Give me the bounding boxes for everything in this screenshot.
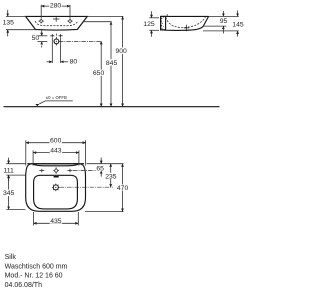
svg-text:845: 845 — [106, 60, 118, 67]
svg-text:435: 435 — [50, 218, 62, 225]
side view: top edge and extension — [161, 15, 209, 17]
plan view: left tap hole cross — [39, 169, 44, 173]
side view: plate speckles — [161, 17, 164, 29]
plan view: inner bowl outline — [34, 175, 78, 209]
dimension 145 — [232, 11, 244, 37]
svg-text:Waschtisch 600 mm: Waschtisch 600 mm — [5, 263, 68, 270]
dimension 135 — [2, 10, 37, 37]
svg-text:65: 65 — [96, 166, 104, 173]
reference line 650 (drain height) — [59, 40, 102, 42]
front view: left tap hole (drilled, diamond) — [39, 19, 44, 24]
dimension 900 — [115, 16, 127, 106]
plan view: right tap hole cross — [68, 169, 73, 173]
dimension 95 — [219, 11, 227, 34]
dimension 443 — [33, 147, 79, 166]
title text block — [5, 254, 68, 289]
plan view: drain reference line (dash-dot) — [60, 186, 113, 188]
floor level symbol — [35, 95, 72, 106]
svg-text:Mod.- Nr. 12 16 60: Mod.- Nr. 12 16 60 — [5, 273, 63, 280]
dimension 65 — [96, 158, 105, 177]
svg-text:125: 125 — [143, 21, 155, 28]
floor line — [4, 106, 220, 108]
svg-text:80: 80 — [70, 59, 78, 66]
svg-text:443: 443 — [50, 147, 62, 154]
reference line 900 (top edge extension) — [88, 15, 124, 17]
dimension 111 — [3, 158, 25, 182]
svg-text:04.06.08/Th: 04.06.08/Th — [5, 282, 42, 289]
plan view: outer outline — [26, 164, 86, 212]
front view: washbasin outline — [26, 16, 88, 30]
dimension 600 — [26, 137, 86, 166]
plan view: rear extension line — [87, 163, 124, 165]
drain circle — [54, 39, 59, 44]
front view: hidden bowl outline (dashed) — [35, 21, 78, 26]
dimension 435 — [34, 212, 79, 226]
dimension 235 — [105, 164, 117, 188]
side view: wall fixing plate — [161, 16, 166, 29]
dimension 80 — [47, 38, 78, 66]
svg-text:135: 135 — [3, 19, 15, 26]
plan view: rear ledge arc — [33, 164, 78, 166]
svg-text:±0 = OFFB: ±0 = OFFB — [46, 95, 67, 100]
plan view: front extension line — [85, 211, 124, 213]
fixing holes cross pair below basin — [50, 34, 63, 37]
dimension 50 — [32, 30, 48, 48]
dimension 845 — [106, 22, 118, 107]
svg-text:900: 900 — [116, 48, 128, 55]
reference line 845 — [83, 21, 112, 23]
dimension 125 — [143, 11, 159, 37]
svg-text:145: 145 — [232, 21, 244, 28]
svg-text:345: 345 — [3, 190, 15, 197]
side view: hidden bowl profile (dashed) — [166, 17, 206, 28]
plan view: middle tap hole (punched) — [53, 167, 59, 173]
side view: 95 reference line — [203, 25, 226, 27]
svg-text:Silk: Silk — [5, 254, 17, 261]
svg-text:111: 111 — [4, 167, 15, 174]
plan view: rear edge straight line — [27, 163, 84, 165]
plan view: overflow mark — [54, 176, 59, 178]
svg-text:470: 470 — [117, 185, 129, 192]
svg-text:280: 280 — [50, 2, 62, 9]
side view: bowl low point cross — [184, 25, 189, 32]
side view: body outline — [161, 16, 209, 30]
side view: fixing hole mark above plate — [166, 14, 168, 16]
plan view: tap hole reference line (dash-dot) — [73, 170, 102, 172]
vertical centerline (dashed) — [55, 34, 57, 47]
side view: 145 reference line — [203, 30, 239, 32]
svg-text:650: 650 — [93, 70, 105, 77]
svg-text:95: 95 — [220, 18, 228, 25]
dimension 470 — [117, 164, 129, 212]
dimension 345 — [3, 175, 26, 209]
front view: right tap hole (drilled, diamond) — [67, 19, 72, 24]
svg-text:235: 235 — [105, 173, 117, 180]
plan view: drain hole — [52, 184, 60, 192]
dimension 650 — [93, 41, 105, 106]
front view: middle tap hole cross — [53, 16, 60, 21]
dimension 280 — [41, 1, 70, 18]
svg-text:600: 600 — [50, 138, 62, 145]
svg-text:50: 50 — [32, 35, 40, 42]
